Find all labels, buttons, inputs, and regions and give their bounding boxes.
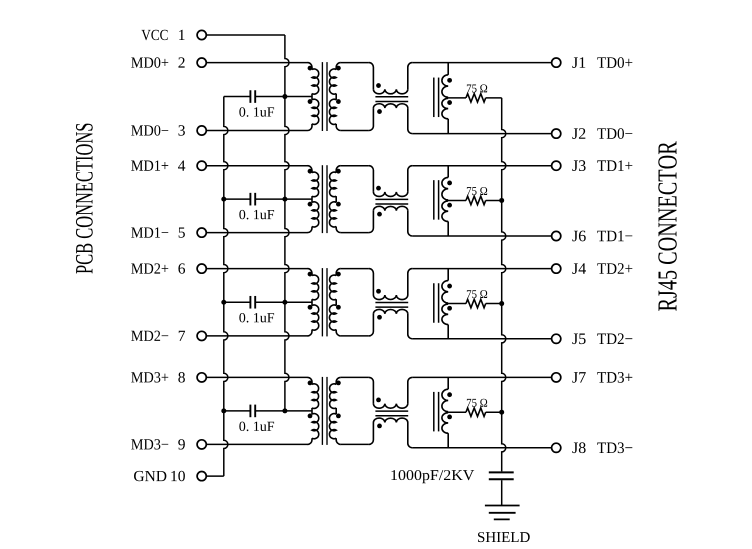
- autotransformer A4 core: [434, 392, 439, 432]
- wire MD2- pin to transformer T3 primary bottom: [206, 335, 307, 337]
- transformer T3 secondary winding: [329, 269, 340, 336]
- resistor R4 75 ohm: [466, 408, 486, 416]
- resistor R2 75 ohm: [466, 196, 486, 204]
- junction common termination line at R4: [499, 410, 504, 415]
- wire GND bus to capacitor C3 left plate: [224, 301, 251, 303]
- wire T3 secondary bottom to choke L3: [341, 335, 369, 337]
- terminal circle pin J3: [552, 161, 561, 170]
- transformer T2 primary winding (centre-tapped): [308, 166, 319, 233]
- junction VCC bus at channel 3 centre tap: [282, 300, 287, 305]
- pin label J1 TD0+: [572, 57, 632, 68]
- phase dot T4 primary top: [308, 381, 313, 386]
- phase dot T2 primary bottom: [308, 202, 313, 207]
- wire autotransformer A3 centre tap to resistor R3: [448, 303, 466, 305]
- capacitor C2 0.1uF plates: [250, 193, 255, 206]
- pin label J8 TD3-: [572, 442, 632, 453]
- choke L3 top winding: [369, 269, 412, 300]
- terminal circle pin 1 (VCC): [197, 30, 206, 39]
- wire capacitor C4 right plate to VCC bus and T4 centre tap: [255, 410, 312, 412]
- choke L1 top winding: [369, 63, 412, 94]
- autotransformer A4 winding: [442, 377, 448, 447]
- terminal circle pin 10 (GND): [197, 472, 206, 481]
- wire autotransformer A4 centre tap to resistor R4: [448, 411, 466, 413]
- wire GND bus to capacitor C1 left plate: [224, 96, 251, 98]
- phase dot T3 secondary middle: [336, 305, 341, 310]
- wire MD3- pin to transformer T4 primary bottom: [206, 443, 307, 445]
- pin label GND 10: [134, 471, 185, 481]
- pin label MD2+ 6: [131, 263, 185, 273]
- wire autotransformer A1 centre tap to resistor R1: [448, 97, 466, 99]
- ground symbol SHIELD: [485, 506, 520, 520]
- junction VCC bus at channel 2 centre tap: [282, 197, 287, 202]
- resistor R1 75 ohm: [466, 94, 486, 102]
- phase dot autotransformer A4 top: [447, 392, 452, 397]
- junction VCC bus at channel 1 centre tap: [282, 94, 287, 99]
- junction common termination line at R3: [499, 301, 504, 306]
- wire MD2+ pin to transformer T3 primary top: [206, 268, 307, 270]
- terminal circle pin J7: [552, 373, 561, 382]
- terminal circle pin 5 (MD1-): [197, 228, 206, 237]
- phase dot autotransformer A3 bottom: [447, 306, 452, 311]
- terminal circle pin J4: [552, 264, 561, 273]
- junction common termination line at R2: [499, 198, 504, 203]
- phase dot choke L2 bottom: [377, 212, 382, 217]
- wire GND bus to capacitor C4 left plate: [224, 410, 251, 412]
- phase dot T1 secondary middle: [336, 99, 341, 104]
- value label capacitor C1 0.1uF: [239, 107, 274, 117]
- pin label MD1- 5: [131, 227, 185, 237]
- transformer T4 primary winding (centre-tapped): [308, 377, 319, 444]
- transformer T1 core: [322, 62, 327, 131]
- wire GND bus vertical: [224, 97, 228, 477]
- wire resistor R2 to common termination line: [486, 199, 502, 201]
- wire autotransformer A2 centre tap to resistor R2: [448, 199, 466, 201]
- wire capacitor C3 right plate to VCC bus and T3 centre tap: [255, 301, 312, 303]
- autotransformer A3 core: [434, 283, 439, 323]
- phase dot choke L4 top: [376, 398, 381, 403]
- capacitor C4 0.1uF plates: [250, 405, 255, 418]
- wire capacitor C5 to shield ground: [501, 480, 503, 505]
- value label capacitor C2 0.1uF: [239, 210, 274, 220]
- autotransformer A1 core: [434, 78, 439, 118]
- phase dot T2 primary top: [308, 169, 313, 174]
- wire choke L3 bottom to J pin (bottom rail): [412, 338, 551, 340]
- transformer T2 secondary winding: [329, 166, 340, 233]
- wire MD1+ pin to transformer T2 primary top: [206, 165, 307, 167]
- terminal circle pin 8 (MD3+): [197, 373, 206, 382]
- autotransformer A2 winding: [442, 166, 448, 236]
- phase dot T2 secondary top: [336, 169, 341, 174]
- terminal circle pin J5: [552, 334, 561, 343]
- wire choke L4 bottom to J pin (bottom rail): [412, 447, 551, 449]
- autotransformer A3 winding: [442, 269, 448, 339]
- choke L2 bottom winding: [369, 206, 412, 236]
- capacitor C5 1000pF/2KV plates: [489, 472, 514, 479]
- phase dot choke L3 top: [376, 289, 381, 294]
- transformer T2 core: [322, 165, 327, 233]
- choke L2 top winding: [369, 166, 412, 197]
- junction GND bus at capacitor C2: [221, 197, 226, 202]
- transformer T3 primary winding (centre-tapped): [308, 269, 319, 336]
- value label resistor R3 75 Ohm: [467, 290, 487, 298]
- transformer T1 secondary winding: [329, 63, 340, 131]
- terminal circle pin 7 (MD2-): [197, 331, 206, 340]
- transformer T4 core: [322, 377, 327, 445]
- pin label MD3+ 8: [131, 372, 185, 382]
- phase dot autotransformer A2 bottom: [447, 203, 452, 208]
- junction GND bus at capacitor C4: [221, 408, 226, 413]
- wire resistor R4 to common termination line: [486, 411, 502, 413]
- choke L4 bottom winding: [369, 418, 412, 448]
- wire T4 secondary top to choke L4: [341, 376, 369, 378]
- wire MD0- pin to transformer T1 primary bottom: [206, 130, 307, 132]
- pin label J4 TD2+: [572, 263, 632, 274]
- phase dot choke L1 bottom: [377, 109, 382, 114]
- wire capacitor C2 right plate to VCC bus and T2 centre tap: [255, 198, 312, 200]
- terminal circle pin J8: [552, 443, 561, 452]
- choke L1 core: [375, 97, 408, 102]
- value label capacitor C5 1000pF/2KV: [391, 470, 474, 483]
- wire choke L1 top to J pin (top rail): [412, 62, 551, 64]
- pin label MD0+ 2: [131, 57, 184, 67]
- wire MD1- pin to transformer T2 primary bottom: [206, 232, 307, 234]
- phase dot T3 secondary top: [336, 272, 341, 277]
- value label capacitor C4 0.1uF: [239, 422, 274, 432]
- choke L1 bottom winding: [369, 104, 412, 134]
- value label resistor R1 75 Ohm: [467, 84, 487, 92]
- phase dot T2 secondary middle: [336, 202, 341, 207]
- pin label MD2- 7: [131, 331, 185, 341]
- wire MD3+ pin to transformer T4 primary top: [206, 376, 307, 378]
- resistor R3 75 ohm: [466, 299, 486, 307]
- terminal circle pin J2: [552, 129, 561, 138]
- net label SHIELD: [478, 532, 530, 542]
- junction VCC bus at channel 4 centre tap: [282, 408, 287, 413]
- phase dot T1 primary bottom: [308, 99, 313, 104]
- wire resistor R3 to common termination line: [486, 303, 502, 305]
- wire T1 secondary bottom to choke L1: [341, 130, 369, 132]
- phase dot choke L2 top: [376, 186, 381, 191]
- wire T2 secondary bottom to choke L2: [341, 232, 369, 234]
- phase dot T1 secondary top: [336, 66, 341, 71]
- wire T4 secondary bottom to choke L4: [341, 443, 369, 445]
- terminal circle pin 9 (MD3-): [197, 440, 206, 449]
- transformer T1 primary winding (centre-tapped): [308, 63, 319, 131]
- phase dot choke L4 bottom: [377, 424, 382, 429]
- wire GND pin 10 to GND bus: [206, 475, 224, 477]
- terminal circle pin J6: [552, 231, 561, 240]
- title RJ45 CONNECTOR: [658, 141, 676, 311]
- wire choke L4 top to J pin (top rail): [412, 376, 551, 378]
- phase dot autotransformer A2 top: [447, 181, 452, 186]
- phase dot autotransformer A1 bottom: [447, 100, 452, 105]
- phase dot choke L1 top: [376, 83, 381, 88]
- choke L4 core: [375, 411, 408, 416]
- terminal circle pin 6 (MD2+): [197, 264, 206, 273]
- wire choke L1 bottom to J pin (bottom rail): [412, 133, 551, 135]
- terminal circle pin 3 (MD0-): [197, 126, 206, 135]
- phase dot T4 secondary middle: [336, 414, 341, 419]
- value label resistor R2 75 Ohm: [467, 187, 487, 195]
- value label capacitor C3 0.1uF: [239, 313, 274, 323]
- phase dot T3 primary top: [308, 272, 313, 277]
- capacitor C1 0.1uF plates: [250, 90, 255, 103]
- pin label MD3- 9: [131, 439, 185, 449]
- pin label VCC 1: [141, 30, 184, 40]
- autotransformer A2 core: [434, 180, 439, 220]
- wire capacitor C1 right plate to VCC bus and T1 centre tap: [255, 96, 312, 98]
- wire choke L3 top to J pin (top rail): [412, 268, 551, 270]
- autotransformer A1 winding: [442, 63, 448, 134]
- phase dot T4 secondary top: [336, 381, 341, 386]
- phase dot autotransformer A1 top: [447, 78, 452, 83]
- pin label MD0- 3: [131, 125, 185, 135]
- wire GND bus to capacitor C2 left plate: [224, 198, 251, 200]
- terminal circle pin 2 (MD0+): [197, 58, 206, 67]
- pin label J5 TD2-: [572, 333, 632, 344]
- wire resistor R1 to common termination line: [486, 97, 502, 99]
- wire choke L2 bottom to J pin (bottom rail): [412, 235, 551, 237]
- wire MD0+ pin to transformer T1 primary top: [206, 62, 307, 64]
- choke L3 bottom winding: [369, 309, 412, 338]
- terminal circle pin 4 (MD1+): [197, 161, 206, 170]
- wire T1 secondary top to choke L1: [341, 62, 369, 64]
- pin label MD1+ 4: [131, 160, 185, 170]
- choke L3 core: [375, 302, 408, 307]
- value label resistor R4 75 Ohm: [467, 399, 487, 407]
- wire choke L2 top to J pin (top rail): [412, 165, 551, 167]
- transformer T4 secondary winding: [329, 377, 340, 444]
- junction GND bus at capacitor C3: [221, 300, 226, 305]
- transformer T3 core: [322, 268, 327, 336]
- pin label J2 TD0-: [572, 128, 632, 139]
- wire VCC pin 1 to VCC bus: [206, 34, 285, 36]
- capacitor C3 0.1uF plates: [250, 296, 255, 309]
- pin label J6 TD1-: [572, 231, 632, 242]
- wire T3 secondary top to choke L3: [341, 268, 369, 270]
- pin label J3 TD1+: [572, 160, 632, 171]
- title PCB CONNECTIONS: [76, 124, 93, 274]
- phase dot autotransformer A4 bottom: [447, 415, 452, 420]
- phase dot T1 primary top: [308, 66, 313, 71]
- phase dot choke L3 bottom: [377, 315, 382, 320]
- terminal circle pin J1: [552, 58, 561, 67]
- choke L4 top winding: [369, 377, 412, 408]
- phase dot T4 primary bottom: [308, 414, 313, 419]
- wire T2 secondary top to choke L2: [341, 165, 369, 167]
- phase dot autotransformer A3 top: [447, 284, 452, 289]
- wire VCC bus vertical: [285, 35, 289, 411]
- pin label J7 TD3+: [572, 372, 632, 383]
- wire common termination line vertical: [502, 98, 506, 472]
- phase dot T3 primary bottom: [308, 305, 313, 310]
- choke L2 core: [375, 199, 408, 204]
